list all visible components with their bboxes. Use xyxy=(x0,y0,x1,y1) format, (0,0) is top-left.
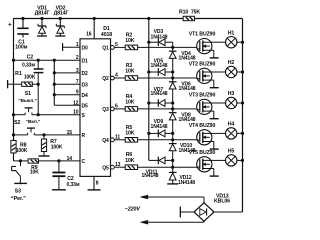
transistor VT5 BUZ90 xyxy=(189,150,216,172)
resistor R1 xyxy=(8,71,40,88)
wire right lamp rail xyxy=(242,19,244,213)
svg-text:100K: 100K xyxy=(16,148,28,154)
diode VD3 1N4148 xyxy=(147,29,173,46)
wire left rail xyxy=(13,19,15,141)
pin 8 / ground xyxy=(88,176,101,190)
svg-text:Q3: Q3 xyxy=(102,107,109,113)
resistor R5 10K xyxy=(114,125,137,142)
svg-text:H1: H1 xyxy=(228,30,235,36)
diode VD4 1N4148 xyxy=(169,47,196,72)
diode VD5 1N4148 xyxy=(147,59,174,76)
svg-text:16: 16 xyxy=(86,31,92,37)
pin 9 D4 xyxy=(76,90,88,99)
pin 2 D1 xyxy=(76,55,88,64)
svg-text:Д814Г: Д814Г xyxy=(54,10,69,16)
zener VD2 xyxy=(54,5,69,36)
svg-text:H3: H3 xyxy=(228,91,235,97)
svg-text:VT4 BUZ90: VT4 BUZ90 xyxy=(189,123,216,129)
svg-text:10K: 10K xyxy=(30,170,39,176)
wire source to ground xyxy=(210,169,219,177)
svg-text:0,33м: 0,33м xyxy=(67,182,80,188)
wire pin stub xyxy=(53,59,80,62)
wire gate corner xyxy=(172,133,174,139)
svg-text:Д814Г: Д814Г xyxy=(35,10,50,16)
switch S2 xyxy=(12,119,46,137)
resistor R9 xyxy=(14,159,61,176)
wire D1 feed (rail to pin2) xyxy=(12,59,54,62)
capacitor C2 xyxy=(22,55,43,84)
wire S to pin10 xyxy=(38,114,80,116)
wire source to ground xyxy=(210,80,219,88)
svg-text:1N4148: 1N4148 xyxy=(142,173,159,179)
transistor VT2 BUZ90 xyxy=(189,61,216,83)
pin 1 D0 xyxy=(76,42,88,51)
node Q5 pin 13 xyxy=(102,162,120,172)
transistor VT3 BUZ90 xyxy=(189,92,216,114)
resistor R2 10K xyxy=(114,32,137,49)
svg-text:R: R xyxy=(82,133,86,139)
svg-text:H4: H4 xyxy=(228,122,235,128)
svg-text:KBL06: KBL06 xyxy=(214,198,230,204)
node Q3 pin 6 xyxy=(102,104,118,114)
wire gate corner xyxy=(172,42,174,47)
diode VD10 1N4148 xyxy=(169,140,196,161)
svg-text:10K: 10K xyxy=(125,158,135,164)
node ~220V xyxy=(125,207,141,213)
svg-text:10K: 10K xyxy=(125,130,135,136)
diode VD9 1N4148 xyxy=(147,119,174,137)
svg-text:100м: 100м xyxy=(15,45,27,51)
svg-text:1N4148: 1N4148 xyxy=(178,180,195,186)
svg-text:Q2: Q2 xyxy=(102,76,109,82)
svg-text:S3: S3 xyxy=(15,189,21,195)
bridge rectifier VD13 KBL06 xyxy=(194,193,230,221)
wire pin stub xyxy=(53,71,80,74)
svg-text:10K: 10K xyxy=(125,69,135,75)
pin 16 xyxy=(86,17,96,39)
svg-text:+: + xyxy=(8,22,12,28)
resistor R8 xyxy=(11,140,28,160)
svg-text:D4: D4 xyxy=(82,93,89,99)
svg-text:VT3 BUZ90: VT3 BUZ90 xyxy=(189,92,216,98)
op IC D1 4018 body xyxy=(80,26,112,177)
svg-text:1N4148: 1N4148 xyxy=(151,34,168,40)
svg-text:Q4: Q4 xyxy=(102,138,109,144)
svg-text:S1: S1 xyxy=(25,91,31,97)
svg-text:Q1: Q1 xyxy=(102,46,109,52)
pin 10 S xyxy=(73,110,85,119)
wire S2 to pin15 xyxy=(44,134,80,136)
svg-text:Q5: Q5 xyxy=(102,165,109,171)
wire gate corner xyxy=(172,72,174,78)
svg-text:VT1 BUZ90: VT1 BUZ90 xyxy=(189,32,216,38)
resistor R7 xyxy=(39,135,63,156)
svg-text:D5: D5 xyxy=(82,104,89,110)
svg-text:1N4148: 1N4148 xyxy=(151,91,168,97)
wire gate line xyxy=(138,76,197,79)
wire AC line lower xyxy=(141,220,204,224)
wire gate line xyxy=(138,46,197,49)
svg-text:1N4148: 1N4148 xyxy=(179,86,196,92)
node Q2 pin 4 xyxy=(102,73,118,83)
lamp H3 xyxy=(211,91,244,109)
svg-text:“Вкл.”: “Вкл.” xyxy=(26,119,41,125)
wire pin stub xyxy=(53,93,80,96)
wire gate corner xyxy=(172,103,174,109)
svg-text:S2: S2 xyxy=(14,120,20,126)
wire pin stub xyxy=(53,83,80,86)
pin 14 C xyxy=(67,156,86,165)
svg-text:10K: 10K xyxy=(125,100,135,106)
diode VD6 1N4148 xyxy=(169,78,196,103)
capacitor C1 xyxy=(8,17,29,51)
svg-text:VT5 BUZ90: VT5 BUZ90 xyxy=(189,150,216,156)
resistor R10 xyxy=(179,10,200,21)
svg-text:R10 75K: R10 75K xyxy=(179,10,200,16)
diode VD8 1N4148 xyxy=(169,109,196,133)
wire source to ground xyxy=(210,111,219,119)
diode VD12 1N4148 xyxy=(167,167,195,186)
wire C2b/R1 to S line xyxy=(37,84,40,116)
svg-text:C: C xyxy=(82,159,86,165)
svg-text:10K: 10K xyxy=(125,38,135,44)
wire bridge plus to rail xyxy=(214,211,243,213)
switch S1 xyxy=(12,91,38,116)
svg-text:“Рег.”: “Рег.” xyxy=(11,196,26,202)
lamp H4 xyxy=(211,122,244,139)
transistor VT4 BUZ90 xyxy=(189,123,216,145)
svg-text:H5: H5 xyxy=(228,149,235,155)
wire source to ground xyxy=(210,50,219,58)
svg-text:~220V: ~220V xyxy=(125,207,141,213)
wire gate corner xyxy=(172,160,174,167)
node Q1 pin 5 xyxy=(102,42,118,52)
svg-text:R1: R1 xyxy=(15,71,22,77)
node Q4 pin 11 xyxy=(102,134,120,144)
svg-text:D1: D1 xyxy=(82,58,89,64)
wire AC line upper xyxy=(141,195,204,203)
pin 7 D3 xyxy=(76,79,88,88)
resistor R6 10K xyxy=(114,152,137,169)
svg-text:D3: D3 xyxy=(82,82,89,88)
wire gate line xyxy=(138,107,197,110)
svg-text:1N4148: 1N4148 xyxy=(151,124,168,130)
wire D-input bus xyxy=(53,60,55,105)
svg-text:C2: C2 xyxy=(27,55,34,61)
svg-text:4018: 4018 xyxy=(101,32,112,38)
diode VD11 1N4148 xyxy=(142,157,175,180)
svg-text:8: 8 xyxy=(96,181,99,187)
pin 3 D2 xyxy=(76,68,88,77)
resistor R3 10K xyxy=(114,63,137,80)
capacitor C3 xyxy=(52,161,80,190)
transistor VT1 BUZ90 xyxy=(189,32,216,54)
pin 12 D5 xyxy=(73,100,88,109)
svg-text:H2: H2 xyxy=(228,60,235,66)
svg-text:100K: 100K xyxy=(51,144,63,150)
svg-text:D0: D0 xyxy=(82,45,89,51)
resistor R4 10K xyxy=(114,94,137,111)
diode VD7 1N4148 xyxy=(147,87,174,107)
wire gate line xyxy=(138,166,197,169)
wire pin1 stub xyxy=(63,43,80,51)
lamp H2 xyxy=(211,60,244,78)
switch S3 xyxy=(11,161,27,202)
pin 15 R xyxy=(67,130,86,139)
wire top +V rail xyxy=(14,18,243,20)
wire diode feed bus xyxy=(147,17,150,161)
wire gate line xyxy=(138,138,197,141)
svg-text:0,33м: 0,33м xyxy=(22,63,35,69)
zener VD1 xyxy=(35,5,50,36)
wire source to ground xyxy=(210,142,219,150)
wire R9 to pin14 xyxy=(59,160,80,162)
svg-text:1N4148: 1N4148 xyxy=(151,63,168,69)
svg-text:100K: 100K xyxy=(24,75,36,81)
wire bridge minus terminal xyxy=(180,207,194,218)
svg-text:VT2 BUZ90: VT2 BUZ90 xyxy=(189,61,216,67)
svg-text:“Выкл.”: “Выкл.” xyxy=(18,98,37,104)
lamp H5 xyxy=(211,149,244,166)
svg-text:D2: D2 xyxy=(82,71,89,77)
wire pin12 stub xyxy=(54,104,80,106)
lamp H1 xyxy=(211,30,244,48)
